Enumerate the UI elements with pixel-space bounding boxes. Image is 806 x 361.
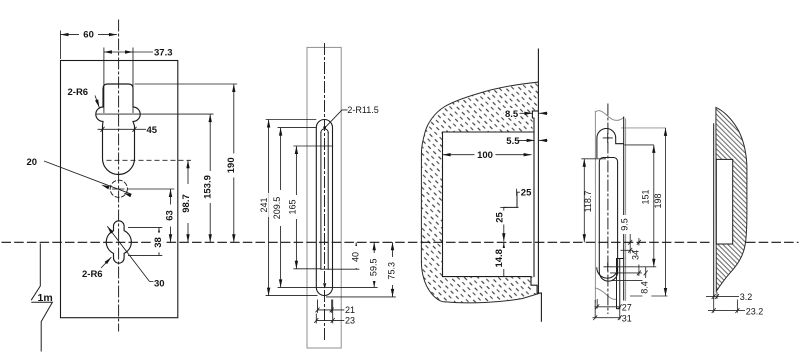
svg-text:23: 23 (345, 315, 355, 325)
dim 40 line (355, 242, 357, 269)
dim 63 extension at spindle center (127, 188, 174, 190)
dim 37.3 line (104, 51, 133, 53)
door face line (537, 49, 539, 293)
plate outline rectangle (61, 61, 178, 318)
label 8.4 rotated (639, 278, 651, 297)
dim 59.5 extension (316, 286, 377, 288)
label 8.5 (504, 108, 520, 120)
svg-text:151: 151 (641, 189, 651, 204)
dim 165 extensions (293, 146, 332, 269)
dim 38 extensions (128, 228, 162, 256)
svg-text:5.5: 5.5 (506, 136, 520, 147)
cylinder circle bottom half (597, 268, 618, 278)
dim 37.3 extensions (104, 48, 133, 114)
dim 209.5 extensions (278, 128, 317, 288)
dim 23.2 line with ticks (708, 310, 745, 312)
svg-text:23.2: 23.2 (746, 306, 764, 316)
svg-text:1m: 1m (38, 292, 53, 304)
dim 165 line (295, 146, 297, 269)
label 165 rotated (288, 195, 298, 219)
faceplate tab channel (617, 259, 624, 309)
dim 98.7 extension (dashed arc-center line) (107, 159, 192, 161)
svg-text:2-R11.5: 2-R11.5 (347, 105, 378, 115)
label 118.7 rotated (583, 186, 595, 217)
dim 23 line (316, 319, 344, 321)
svg-text:45: 45 (147, 125, 158, 136)
door stile hatched blob (421, 82, 538, 303)
dim 75.3 extension (326, 296, 396, 298)
dim 190 line (233, 84, 235, 242)
label 98.7 rotated (181, 184, 192, 223)
dim 8.5 lines (519, 112, 532, 114)
dim 60 extension (60, 31, 62, 60)
leader 20 (44, 161, 132, 194)
svg-text:75.3: 75.3 (387, 262, 397, 280)
svg-text:25: 25 (494, 212, 505, 223)
label 9.5 rotated (619, 215, 631, 234)
mortise pocket outline (443, 132, 534, 277)
dim 153.9 extension (96, 113, 214, 115)
vertical centerline view4 (607, 104, 609, 314)
key cylinder clover cutout (106, 221, 131, 263)
svg-text:40: 40 (350, 252, 360, 262)
dim 241 line (268, 120, 270, 296)
svg-text:118.7: 118.7 (583, 191, 593, 213)
inner step lines of pocket (504, 192, 518, 207)
label 60 (79, 29, 98, 41)
svg-text:21: 21 (345, 305, 355, 315)
svg-text:59.5: 59.5 (368, 259, 378, 277)
label 75.3 rotated (387, 257, 397, 285)
svg-text:20: 20 (27, 157, 38, 168)
svg-text:30: 30 (154, 279, 165, 290)
leader 2-R6 top (95, 96, 99, 108)
extension line 198 top (gray) (622, 127, 666, 129)
dim 75.3 line (392, 242, 394, 297)
global horizontal centerline (2, 241, 798, 243)
inner slot top cap arc (321, 129, 328, 133)
dim 45 line with ticks (98, 128, 147, 130)
mortise pocket (white) (443, 132, 533, 277)
vertical centerline view2 (324, 44, 326, 342)
dim 60 line (61, 34, 117, 36)
dim 98.7 line (187, 160, 189, 242)
handle keyhole cutout (96, 84, 140, 175)
label 209.5 rotated (272, 190, 282, 226)
label 40 rotated (350, 246, 360, 268)
label 25 horizontal (520, 187, 533, 198)
dim 151 line (653, 145, 655, 267)
hub center cross (603, 133, 612, 142)
door stile outline (421, 82, 538, 303)
1m break leader (31, 243, 52, 351)
dim 198 extension bottom (630, 295, 668, 297)
svg-text:2-R6: 2-R6 (68, 87, 89, 98)
svg-text:2-R6: 2-R6 (82, 269, 103, 280)
hub dome and faceplate edge (597, 117, 624, 300)
lock case wavy top (gray) (595, 111, 623, 121)
svg-text:9.5: 9.5 (619, 218, 629, 231)
svg-text:38: 38 (153, 237, 164, 248)
dim 100 line (443, 154, 532, 156)
leader 2-R6 bottom (101, 257, 111, 268)
lock case bottom S-curve (595, 288, 616, 299)
dim 34 line with ticks (638, 238, 640, 276)
dim 25 horizontal line (517, 191, 533, 193)
label 38 rotated (153, 233, 164, 253)
dim 9.5 extension (621, 249, 634, 251)
svg-text:63: 63 (165, 210, 176, 221)
dim 14.8 line (503, 243, 505, 277)
escutcheon hatched profile (716, 107, 747, 291)
vertical centerline view1 (118, 20, 120, 331)
dim 21 line (318, 309, 345, 311)
svg-text:60: 60 (83, 30, 94, 41)
dim 118.7 extension (581, 158, 606, 160)
dim 59.5 line (373, 242, 375, 287)
label 25 vertical rotated (494, 211, 507, 225)
groove top jog (532, 110, 537, 112)
lock case body (gray) left edge (594, 111, 596, 302)
svg-text:198: 198 (653, 193, 663, 208)
faceplate slot view4 (599, 158, 617, 282)
svg-text:37.3: 37.3 (154, 48, 173, 59)
dim 5.5 lines (518, 139, 535, 141)
lock case body right edge (gray) (625, 119, 627, 301)
dim 3.2 extension stub (716, 292, 718, 299)
svg-text:34: 34 (631, 250, 641, 260)
svg-text:14.8: 14.8 (494, 249, 505, 268)
label 198 rotated (653, 190, 665, 213)
dim 151 extension top (625, 144, 655, 146)
dim 34 extension (610, 272, 642, 274)
inner slot lines (321, 133, 328, 270)
svg-text:153.9: 153.9 (202, 175, 213, 199)
dim 190 extension (135, 83, 238, 85)
label 151 rotated (641, 186, 653, 209)
dim 151 extension bottom (612, 266, 657, 268)
dim 9.5 line with ticks (629, 228, 631, 254)
spindle circle center dash (113, 188, 125, 190)
slot bottom arc center arrow (323, 283, 326, 288)
hidden spindle circle (dashed) (110, 180, 127, 197)
dim 8.4 extension (612, 280, 649, 282)
svg-text:100: 100 (477, 150, 493, 161)
svg-text:27: 27 (622, 303, 632, 313)
dim 153.9 line (209, 114, 211, 242)
cylinder center cross (604, 263, 612, 271)
svg-text:98.7: 98.7 (181, 194, 192, 213)
dim 27 extension stubs (595, 299, 620, 320)
svg-text:8.4: 8.4 (639, 281, 649, 294)
dim 25 vertical line (503, 207, 505, 241)
svg-text:3.2: 3.2 (740, 292, 753, 302)
dim 21/23 extension stubs (316, 300, 332, 324)
door edge below lock (540, 293, 542, 321)
dim 27 line with ticks (595, 306, 621, 308)
svg-text:31: 31 (622, 314, 632, 324)
svg-text:165: 165 (288, 199, 298, 214)
svg-text:209.5: 209.5 (272, 197, 282, 220)
label 241 rotated (259, 193, 269, 217)
dim 31 line with ticks (593, 317, 621, 319)
dim 38 line (158, 228, 160, 256)
escutcheon plate front line (713, 124, 715, 299)
svg-text:241: 241 (259, 197, 269, 212)
dim 63 line (170, 189, 172, 242)
escutcheon hole (white) (716, 159, 732, 244)
label 59.5 rotated (368, 253, 378, 281)
dim 40 extension (321, 268, 360, 270)
dim 8.4 line with ticks (645, 267, 647, 285)
pocket right edge with groove step (532, 111, 534, 277)
label 34 rotated (631, 246, 643, 265)
label 190 rotated (226, 154, 239, 178)
label 63 rotated (165, 205, 176, 227)
dim 3.2 line with ticks (706, 296, 739, 298)
bottom step of pocket (531, 277, 541, 294)
label 153.9 rotated (202, 171, 215, 203)
svg-text:8.5: 8.5 (505, 109, 519, 120)
leader 30 (107, 226, 153, 281)
ticks 21/23 (314, 308, 334, 323)
dim 241 extensions (266, 120, 318, 296)
leader 2-R11.5 (325, 110, 347, 127)
svg-text:190: 190 (226, 157, 237, 173)
faceplate groove (white) (533, 111, 539, 293)
svg-text:25: 25 (521, 187, 532, 198)
dim 198 line (665, 128, 667, 296)
dim 209.5 line (280, 128, 282, 288)
slot top arc center dot (323, 126, 326, 129)
label 14.8 rotated (494, 248, 507, 269)
dim 23.2 extension stubs (714, 299, 738, 313)
dim 118.7 line (583, 159, 585, 243)
faceplate slot outline (316, 119, 332, 295)
label 100 (475, 150, 496, 162)
faceplate outer plate (gray) (307, 47, 341, 348)
